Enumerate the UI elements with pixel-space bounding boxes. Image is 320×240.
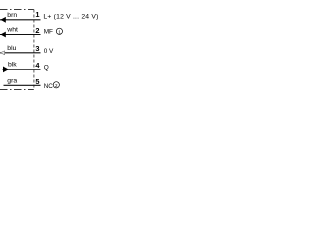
svg-text:wht: wht — [6, 27, 18, 34]
svg-text:L+ (12 V ... 24 V): L+ (12 V ... 24 V) — [43, 14, 98, 21]
device boundary top dash-dot line — [0, 9, 34, 11]
wire 5 (gra) — [4, 84, 41, 86]
svg-text:blk: blk — [8, 62, 17, 69]
svg-text:NC: NC — [44, 83, 54, 90]
svg-text:brn: brn — [7, 12, 17, 19]
arrow left wire 1 — [1, 17, 6, 23]
svg-text:2: 2 — [35, 26, 39, 35]
arrow right wire 4 — [3, 67, 8, 73]
wire 2 (wht) — [0, 34, 41, 36]
wire 1 (brn) — [0, 19, 41, 21]
svg-text:3: 3 — [35, 44, 39, 53]
svg-text:0 V: 0 V — [44, 48, 54, 55]
svg-text:1: 1 — [35, 10, 39, 19]
wire 3 (blu) — [0, 52, 41, 54]
svg-text:2: 2 — [55, 83, 58, 88]
footnote circle 2 — [53, 82, 59, 88]
svg-text:1: 1 — [58, 29, 61, 34]
device boundary bottom dash-dot line — [0, 89, 34, 91]
background — [0, 0, 100, 100]
svg-text:Q: Q — [44, 65, 49, 72]
device boundary right vertical dashed line — [33, 10, 35, 90]
small arrow left wire 3 — [0, 51, 4, 55]
svg-text:gra: gra — [7, 78, 17, 85]
wire 4 (blk) — [3, 68, 41, 70]
svg-text:5: 5 — [35, 77, 39, 86]
footnote circle 1 — [56, 28, 62, 34]
svg-text:MF: MF — [44, 28, 53, 35]
svg-text:blu: blu — [7, 45, 16, 52]
arrow left wire 2 — [1, 32, 6, 38]
